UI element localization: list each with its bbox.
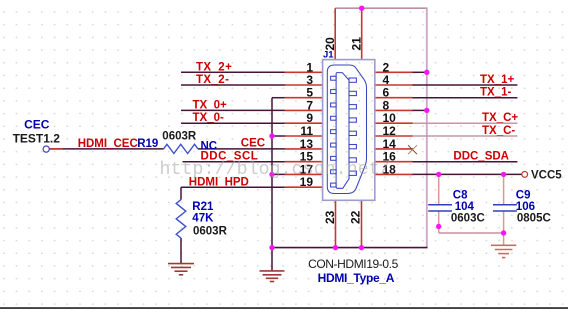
svg-text:TX_0+: TX_0+ xyxy=(193,99,227,111)
svg-text:NC: NC xyxy=(201,140,218,152)
svg-text:TX_C+: TX_C+ xyxy=(482,112,518,124)
svg-text:CON-HDMI19-0.5: CON-HDMI19-0.5 xyxy=(308,257,398,271)
svg-text:12: 12 xyxy=(383,124,397,138)
svg-text:TX_2+: TX_2+ xyxy=(196,61,232,73)
svg-text:0603C: 0603C xyxy=(451,212,485,224)
svg-text:http://blog.csdn.net/: http://blog.csdn.net/ xyxy=(160,160,391,180)
svg-text:22: 22 xyxy=(349,210,363,224)
svg-text:TX_2-: TX_2- xyxy=(196,74,229,86)
svg-text:21: 21 xyxy=(349,37,363,51)
svg-text:CEC: CEC xyxy=(24,118,50,132)
svg-text:TX_1+: TX_1+ xyxy=(480,74,514,86)
svg-text:C8: C8 xyxy=(453,190,468,202)
svg-text:TX_0-: TX_0- xyxy=(193,112,224,124)
svg-text:DDC_SDA: DDC_SDA xyxy=(453,151,509,163)
svg-text:TEST1.2: TEST1.2 xyxy=(13,131,61,145)
svg-text:11: 11 xyxy=(300,124,313,138)
svg-text:R19: R19 xyxy=(137,138,158,150)
svg-text:CEC: CEC xyxy=(241,138,265,150)
svg-text:20: 20 xyxy=(323,37,337,51)
svg-text:23: 23 xyxy=(323,210,337,224)
svg-text:106: 106 xyxy=(516,201,535,213)
svg-text:47K: 47K xyxy=(192,213,214,225)
svg-text:R21: R21 xyxy=(192,201,214,213)
svg-text:0603R: 0603R xyxy=(162,130,197,142)
svg-text:TX_1-: TX_1- xyxy=(480,87,511,99)
svg-text:TX_C-: TX_C- xyxy=(482,125,515,137)
svg-text:HDMI_CEC: HDMI_CEC xyxy=(78,138,138,150)
svg-text:0805C: 0805C xyxy=(517,212,551,224)
svg-text:C9: C9 xyxy=(516,190,531,202)
svg-text:VCC5: VCC5 xyxy=(531,170,562,182)
svg-text:0603R: 0603R xyxy=(193,226,228,238)
svg-text:HDMI_Type_A: HDMI_Type_A xyxy=(318,271,395,285)
svg-text:104: 104 xyxy=(455,201,475,213)
